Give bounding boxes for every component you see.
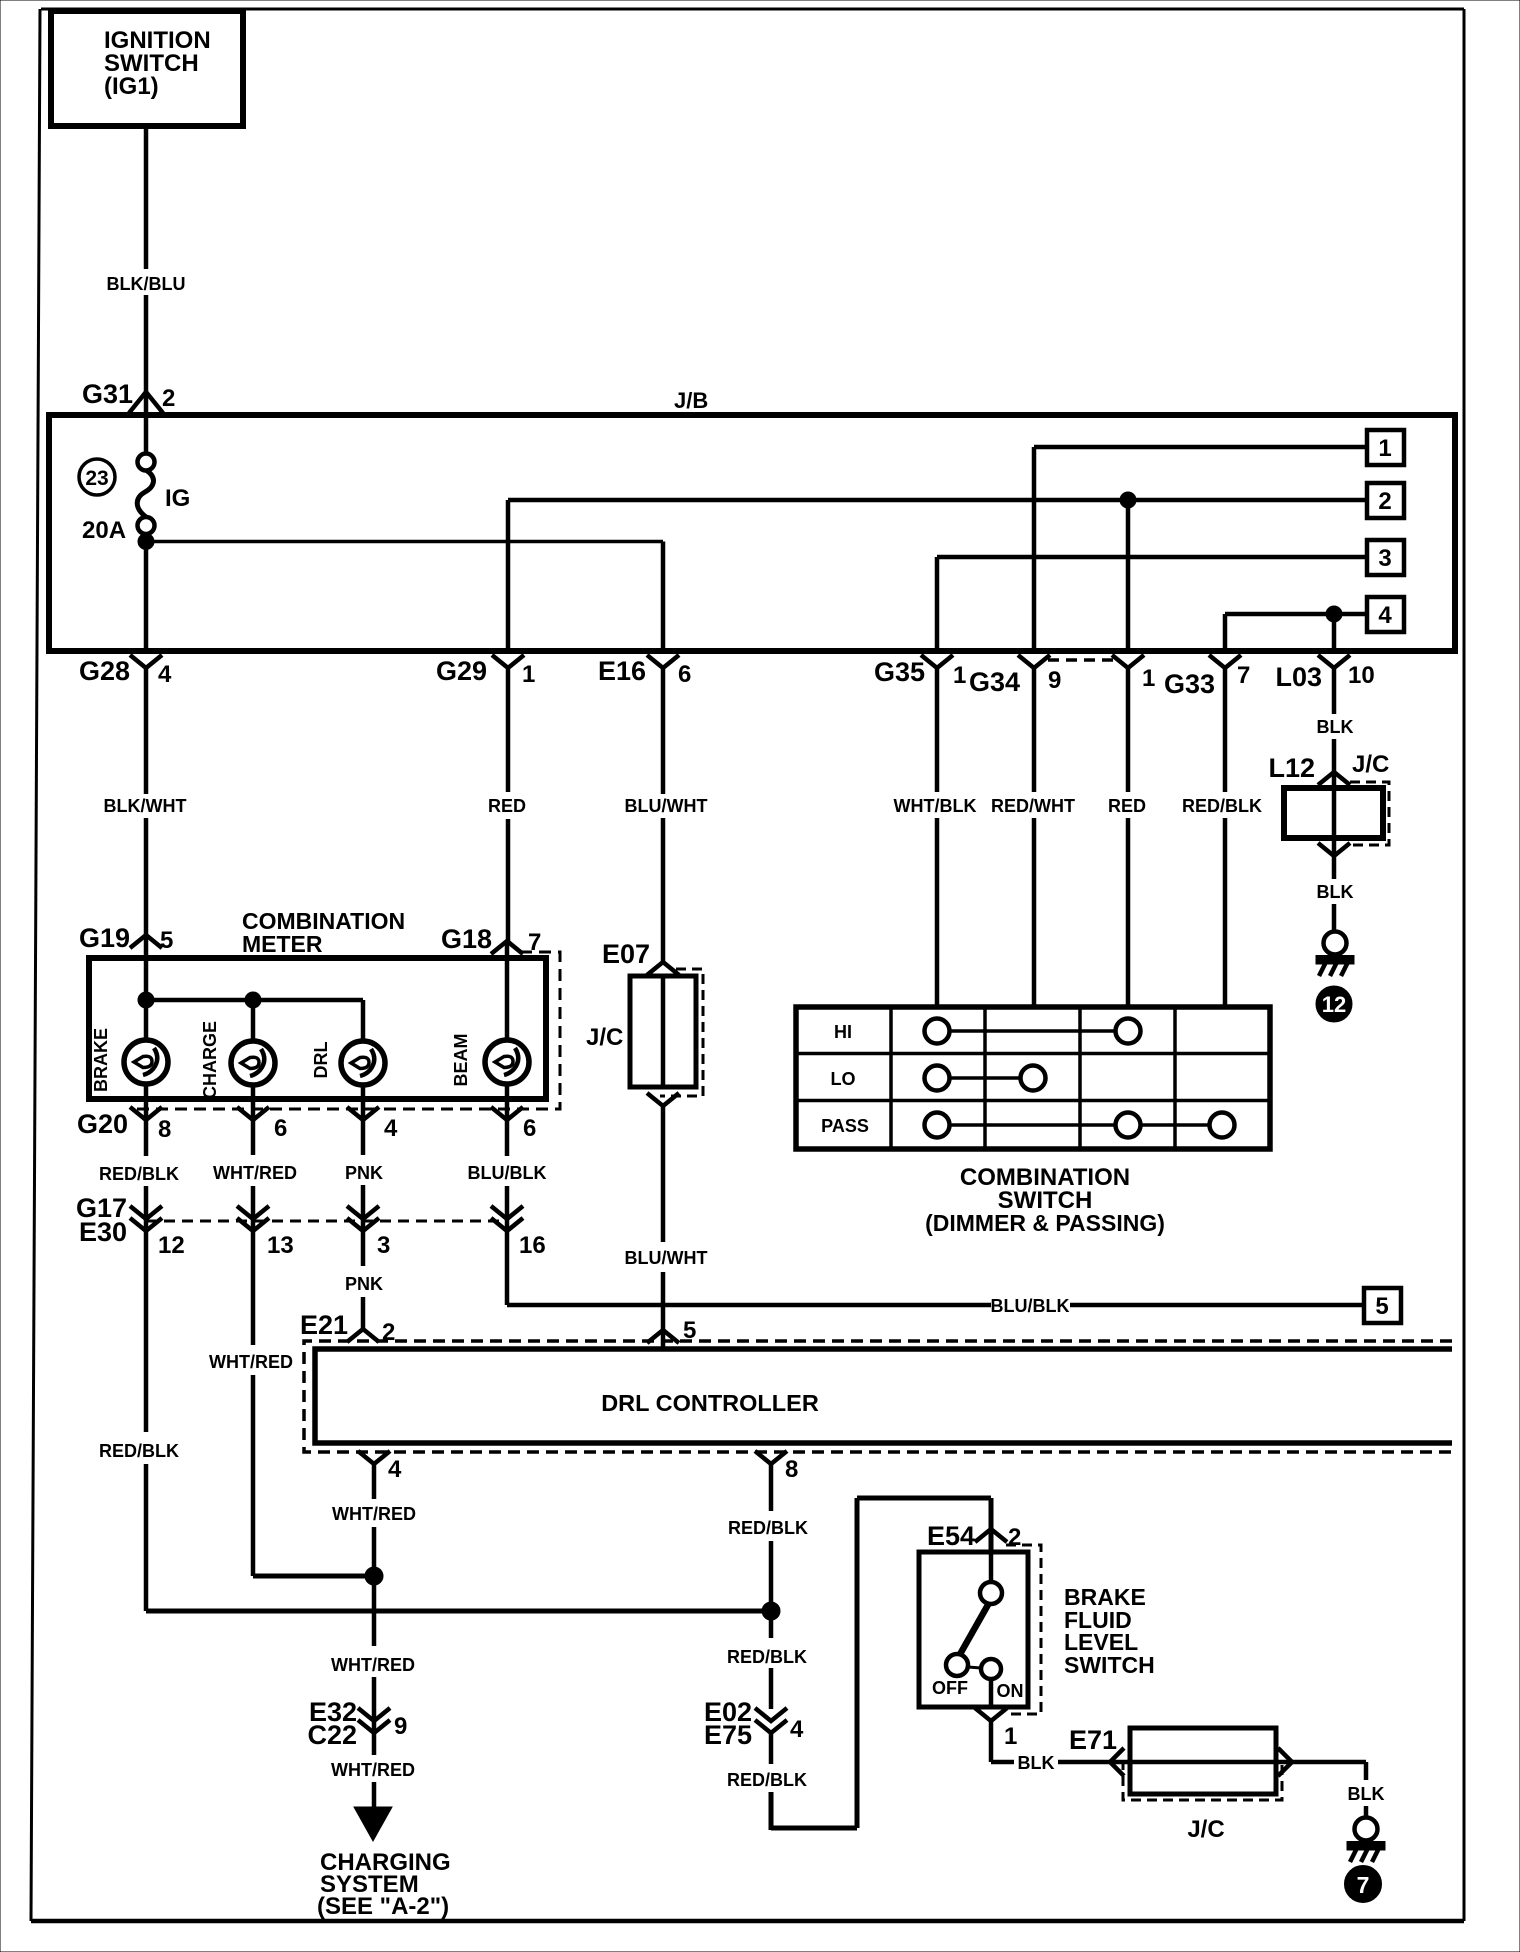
svg-text:C22: C22 [307, 1720, 357, 1750]
svg-text:G19: G19 [79, 923, 130, 953]
svg-text:4: 4 [790, 1716, 804, 1743]
wire down to CHARGE bulb [251, 1000, 256, 1042]
svg-text:3: 3 [1378, 545, 1391, 572]
wire BLK E71 to ground [1292, 1762, 1385, 1817]
L12 lower pin [1318, 843, 1350, 856]
wire through E71 [1110, 1760, 1292, 1765]
wire E16 riser [661, 542, 666, 652]
svg-text:(SEE "A-2"): (SEE "A-2") [317, 1893, 449, 1920]
svg-text:13: 13 [267, 1232, 294, 1259]
DRL pin 5 [647, 1317, 696, 1344]
svg-text:PASS: PASS [821, 1116, 869, 1136]
wire RED/BLK DRL pin 8 down [728, 1464, 808, 1638]
connector G20 pin 4 (DRL) [347, 1107, 398, 1142]
wire RED/BLK pin8 down [99, 1120, 179, 1432]
svg-text:1: 1 [953, 662, 966, 689]
svg-text:G34: G34 [969, 667, 1020, 697]
wire RED/BLK to brake fluid switch [727, 1498, 991, 1830]
junction connector E71 J/C box [1130, 1728, 1276, 1843]
junction dot below fuse [138, 534, 154, 550]
wire RED/BLK from BRAKE down and across [99, 1441, 771, 1611]
connector L12 J/C [1268, 751, 1389, 785]
DRL indicator bulb [311, 1041, 385, 1085]
DRL pin 8 [755, 1451, 798, 1483]
svg-text:4: 4 [158, 661, 172, 688]
connector G20 pin 6 (BEAM) [491, 1107, 536, 1142]
HI row contacts [925, 1019, 1141, 1044]
wire through E07 [661, 976, 666, 1087]
svg-text:E54: E54 [927, 1521, 975, 1551]
junction dot at BRAKE [138, 992, 154, 1008]
svg-text:12: 12 [158, 1232, 185, 1259]
connector G31 pin 2 [82, 379, 175, 413]
connector pin 3 [347, 1206, 390, 1259]
meter internal bus wire [146, 998, 363, 1003]
charging system caption [317, 1849, 451, 1920]
wire RED/BLK G33 down to combination switch [1182, 668, 1262, 1007]
svg-text:5: 5 [160, 927, 173, 954]
svg-text:7: 7 [1237, 662, 1250, 689]
brake fluid level switch caption [1064, 1584, 1155, 1678]
svg-text:G20: G20 [77, 1109, 128, 1139]
wire BLU/WHT E07 to DRL pin 5 [625, 1106, 708, 1349]
terminal box 3 [1367, 540, 1404, 575]
svg-text:G33: G33 [1164, 669, 1215, 699]
wire down to BRAKE bulb [144, 1000, 149, 1041]
junction dot WHT/RED [365, 1567, 383, 1585]
connector E02/E75 pin 4 [704, 1697, 804, 1750]
E71 left pin [1110, 1748, 1124, 1776]
junction connector L12 dashed outline [1350, 782, 1389, 845]
wire G34 riser to terminal 1 [1034, 447, 1367, 651]
svg-text:10: 10 [1348, 662, 1375, 689]
svg-text:1: 1 [1004, 1723, 1017, 1750]
svg-text:E07: E07 [602, 939, 650, 969]
wire BEAM bulb to pin 6 [505, 1084, 510, 1120]
connector pin 16 [491, 1206, 546, 1259]
DRL pin 4 [358, 1451, 402, 1483]
svg-text:G18: G18 [441, 924, 492, 954]
wire DRL bulb to pin 4 [361, 1085, 366, 1120]
wire down to DRL bulb [361, 1000, 366, 1042]
junction dot on terminal 4 line [1326, 606, 1342, 622]
wire WHT/RED pin6 down [213, 1120, 297, 1345]
terminal box 2 [1367, 483, 1404, 518]
wire CHARGE bulb to pin 6 [251, 1085, 256, 1120]
svg-text:8: 8 [785, 1456, 798, 1483]
svg-text:RED/BLK: RED/BLK [727, 1770, 807, 1790]
svg-text:6: 6 [274, 1115, 287, 1142]
svg-text:1: 1 [1142, 665, 1155, 692]
svg-text:IG: IG [165, 485, 190, 512]
svg-text:G31: G31 [82, 379, 133, 409]
connector G33 pin 7 [1164, 655, 1250, 699]
svg-text:16: 16 [519, 1232, 546, 1259]
ground symbol 12 [1316, 932, 1354, 1023]
svg-text:G29: G29 [436, 656, 487, 686]
wire G35 riser to terminal 3 [937, 557, 1367, 651]
connector G19 pin 5 [79, 923, 173, 954]
svg-text:SWITCH: SWITCH [1064, 1652, 1155, 1678]
wire BLK L03 down to L12 [1317, 668, 1354, 772]
svg-text:J/C: J/C [1187, 1816, 1224, 1843]
DRL controller box [315, 1349, 1452, 1443]
svg-text:BLU/WHT: BLU/WHT [625, 796, 708, 816]
terminal box 1 [1367, 430, 1404, 465]
DRL controller dashed connector outline [304, 1341, 1452, 1452]
svg-text:DRL CONTROLLER: DRL CONTROLLER [601, 1390, 819, 1416]
ground symbol 7 [1345, 1818, 1386, 1903]
svg-text:12: 12 [1322, 992, 1346, 1017]
wire WHT/BLK G35 down to combination switch [894, 668, 977, 1007]
connector E21 pin 2 [300, 1310, 395, 1346]
wire BLU/BLK pin6 down [468, 1120, 547, 1305]
svg-text:E21: E21 [300, 1310, 348, 1340]
svg-text:BLK/WHT: BLK/WHT [104, 796, 187, 816]
svg-text:ON: ON [997, 1681, 1024, 1701]
junction E07 label [602, 939, 679, 975]
svg-text:G28: G28 [79, 656, 130, 686]
svg-text:J/C: J/C [1352, 751, 1389, 778]
switch internals [932, 1552, 1024, 1707]
svg-text:HI: HI [834, 1022, 852, 1042]
connector G35 pin 1 [874, 655, 966, 689]
junction dot RED/BLK [762, 1602, 780, 1620]
combination switch table [796, 1007, 1270, 1149]
junction block J/B [49, 388, 1455, 651]
connector G20 pin 8 [77, 1107, 171, 1143]
E07 lower pin [647, 1093, 679, 1106]
wire RED G29 down to G18 [488, 668, 526, 943]
connector pin 13 [237, 1206, 294, 1259]
svg-text:WHT/BLK: WHT/BLK [894, 796, 977, 816]
svg-text:2: 2 [162, 385, 175, 412]
combination meter connector dashed outline [136, 952, 560, 1109]
wire RED/WHT G34 down to combination switch [991, 668, 1075, 1007]
svg-text:RED: RED [488, 796, 526, 816]
svg-text:BLK: BLK [1317, 717, 1354, 737]
wire BLK/BLU from ignition switch to G31 [107, 126, 186, 415]
svg-text:E30: E30 [79, 1217, 127, 1247]
connector G18 pin 7 [441, 924, 541, 956]
svg-text:2: 2 [382, 1319, 395, 1346]
junction dot on terminal 2 line [1120, 492, 1136, 508]
svg-text:G35: G35 [874, 657, 925, 687]
wire WHT/RED from pin13 down and across [209, 1352, 374, 1576]
connector pin 1 (combination switch) [1112, 655, 1155, 692]
terminal box 5 [1364, 1288, 1401, 1323]
CHARGE indicator bulb [200, 1021, 275, 1099]
svg-text:BEAM: BEAM [451, 1034, 471, 1087]
svg-text:RED: RED [1108, 796, 1146, 816]
connector G17/E30 dashed row [146, 1220, 505, 1223]
PASS row contacts [925, 1113, 1235, 1138]
svg-text:WHT/RED: WHT/RED [331, 1760, 415, 1780]
wire BLK from switch to E71 [991, 1721, 1110, 1773]
svg-text:5: 5 [1375, 1293, 1388, 1320]
dashed link G34 to pin 1 [1048, 658, 1114, 662]
connector G17/E30 pin 12 [76, 1193, 185, 1259]
svg-text:4: 4 [388, 1456, 402, 1483]
svg-text:RED/BLK: RED/BLK [1182, 796, 1262, 816]
svg-text:2: 2 [1008, 1524, 1021, 1551]
connector L03 pin 10 [1275, 655, 1374, 692]
wire BLU/WHT E16 down to E07 [625, 668, 708, 962]
svg-text:9: 9 [394, 1713, 407, 1740]
svg-text:6: 6 [523, 1115, 536, 1142]
svg-text:WHT/RED: WHT/RED [332, 1504, 416, 1524]
wire dot down to L03 [1332, 614, 1337, 651]
connector E54 pin 2 [927, 1521, 1021, 1551]
connector G20 pin 6 (CHARGE) [237, 1107, 287, 1142]
wire BRAKE bulb to G20 pin 8 [144, 1084, 149, 1120]
junction connector E07 dashed outline [660, 969, 703, 1096]
svg-text:2: 2 [1378, 488, 1391, 515]
svg-text:BLK/BLU: BLK/BLU [107, 274, 186, 294]
svg-text:METER: METER [242, 931, 323, 957]
svg-text:RED/BLK: RED/BLK [728, 1518, 808, 1538]
wire through L12 [1332, 772, 1337, 856]
svg-text:7: 7 [1357, 1872, 1370, 1898]
svg-text:E16: E16 [598, 656, 646, 686]
svg-text:BRAKE: BRAKE [91, 1028, 111, 1092]
svg-text:E71: E71 [1069, 1725, 1117, 1755]
wire G29 riser and line to terminal 2 [508, 500, 1367, 651]
svg-text:BLU/WHT: BLU/WHT [625, 1248, 708, 1268]
combination switch caption [925, 1164, 1165, 1236]
wire WHT/RED DRL pin 4 down [332, 1464, 416, 1646]
charging system arrow [354, 1807, 392, 1841]
fuse 23 IG 20A [79, 415, 190, 544]
svg-text:1: 1 [522, 661, 535, 688]
junction connector E07 J/C box [586, 976, 696, 1087]
svg-text:1: 1 [1378, 435, 1391, 462]
wire WHT/RED to charging system [331, 1655, 415, 1810]
terminal box 4 [1367, 597, 1404, 632]
svg-text:RED/BLK: RED/BLK [99, 1164, 179, 1184]
svg-text:23: 23 [85, 467, 108, 490]
svg-text:WHT/RED: WHT/RED [209, 1352, 293, 1372]
brake fluid level switch dashed outline [1006, 1545, 1041, 1714]
svg-text:DRL: DRL [311, 1042, 331, 1079]
svg-text:WHT/RED: WHT/RED [213, 1163, 297, 1183]
wire BLK L12 to ground [1317, 856, 1354, 931]
svg-text:RED/BLK: RED/BLK [99, 1441, 179, 1461]
svg-text:RED/BLK: RED/BLK [727, 1647, 807, 1667]
svg-text:4: 4 [1378, 602, 1392, 629]
LO row contacts [925, 1066, 1046, 1091]
wire G19 into meter [144, 935, 149, 1000]
svg-text:BLK: BLK [1348, 1784, 1385, 1804]
svg-text:CHARGE: CHARGE [200, 1021, 220, 1099]
svg-text:RED/WHT: RED/WHT [991, 796, 1075, 816]
brake fluid level switch box [919, 1552, 1028, 1707]
wire G33 riser to terminal 4 [1225, 614, 1367, 651]
junction connector E71 dashed outline [1123, 1760, 1282, 1800]
svg-text:OFF: OFF [932, 1678, 968, 1698]
svg-text:6: 6 [678, 661, 691, 688]
connector G28 pin 4 [79, 655, 172, 688]
wire fuse dot down to G28 [144, 542, 149, 652]
connector E32/C22 pin 9 [307, 1697, 407, 1750]
svg-text:8: 8 [158, 1116, 171, 1143]
svg-text:PNK: PNK [345, 1274, 383, 1294]
svg-text:20A: 20A [82, 517, 126, 544]
wire RED pin1 down to combination switch [1108, 668, 1146, 1007]
svg-text:PNK: PNK [345, 1163, 383, 1183]
svg-text:4: 4 [384, 1115, 398, 1142]
svg-text:J/C: J/C [586, 1024, 623, 1051]
wire PNK to E21 [345, 1274, 383, 1329]
svg-text:BLK: BLK [1317, 882, 1354, 902]
E54 pin 1 [975, 1708, 1017, 1750]
junction connector L12 box [1284, 788, 1383, 838]
svg-text:L03: L03 [1275, 662, 1322, 692]
combination meter box [89, 958, 546, 1099]
svg-text:E75: E75 [704, 1720, 752, 1750]
ignition switch (IG1) box [51, 11, 243, 126]
BRAKE indicator bulb [91, 1028, 168, 1092]
svg-text:BLU/BLK: BLU/BLK [468, 1163, 547, 1183]
svg-text:BLK: BLK [1018, 1753, 1055, 1773]
svg-text:WHT/RED: WHT/RED [331, 1655, 415, 1675]
wire dot down to pin 1 (left of G33) [1126, 500, 1131, 651]
svg-text:5: 5 [683, 1317, 696, 1344]
svg-text:BLU/BLK: BLU/BLK [991, 1296, 1070, 1316]
svg-text:J/B: J/B [674, 388, 708, 413]
svg-text:3: 3 [377, 1232, 390, 1259]
BEAM indicator bulb [451, 1034, 529, 1087]
wire G18 into meter to BEAM bulb [505, 943, 510, 1041]
svg-text:9: 9 [1048, 667, 1061, 694]
svg-text:(DIMMER & PASSING): (DIMMER & PASSING) [925, 1210, 1165, 1236]
wire PNK pin4 down [345, 1120, 383, 1266]
combination meter caption [242, 908, 405, 957]
svg-text:LO: LO [831, 1069, 856, 1089]
E71 right pin [1278, 1748, 1292, 1776]
wire BLK/WHT G28 down to G19 [104, 668, 187, 935]
connector G34 pin 9 [969, 655, 1061, 697]
wire BLU/BLK to terminal 5 [507, 1296, 1364, 1316]
connector E16 pin 6 [598, 655, 691, 688]
connector G29 pin 1 [436, 655, 535, 688]
wire from fuse dot to E16 riser [146, 540, 663, 544]
svg-text:L12: L12 [1268, 753, 1315, 783]
svg-text:(IG1): (IG1) [104, 73, 159, 100]
junction dot at CHARGE [245, 992, 261, 1008]
